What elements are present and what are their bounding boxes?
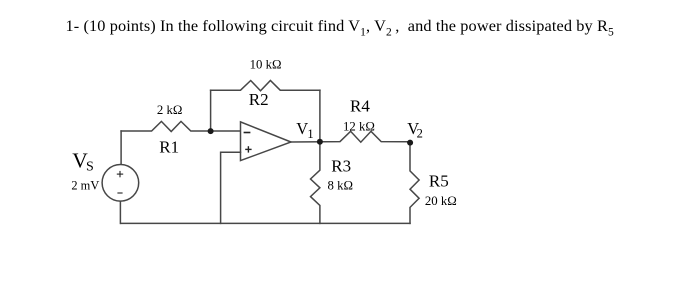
svg-text:2: 2 <box>417 126 423 140</box>
svg-text:R2: R2 <box>249 90 269 109</box>
svg-text:S: S <box>86 160 94 175</box>
svg-text:2 kΩ: 2 kΩ <box>157 103 183 117</box>
svg-text:2 mV: 2 mV <box>71 178 99 192</box>
svg-text:R3: R3 <box>331 157 351 176</box>
svg-text:10 kΩ: 10 kΩ <box>250 58 282 72</box>
svg-text:R1: R1 <box>159 138 179 157</box>
svg-text:R5: R5 <box>429 172 449 191</box>
svg-text:8 kΩ: 8 kΩ <box>328 178 354 192</box>
svg-text:20 kΩ: 20 kΩ <box>425 194 457 208</box>
svg-text:12 kΩ: 12 kΩ <box>343 120 375 134</box>
svg-text:1: 1 <box>307 127 313 141</box>
svg-text:R4: R4 <box>350 96 370 115</box>
